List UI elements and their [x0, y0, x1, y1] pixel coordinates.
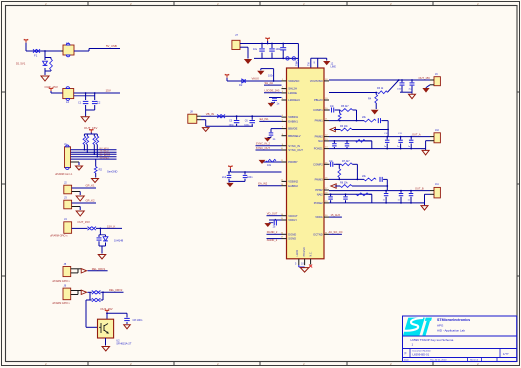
svg-text:R6 10k: R6 10k	[340, 125, 348, 128]
svg-text:PWM2: PWM2	[315, 135, 324, 139]
svg-text:SenGND: SenGND	[107, 169, 118, 173]
svg-text:DGND: DGND	[288, 232, 296, 236]
svg-text:uP/ARM GPIO x: uP/ARM GPIO x	[50, 235, 68, 238]
svg-text:PROBY: PROBY	[288, 160, 298, 164]
svg-text:PBL2O: PBL2O	[314, 98, 323, 102]
svg-text:R7 4k7: R7 4k7	[342, 160, 350, 163]
svg-text:SYNC_OUT: SYNC_OUT	[288, 148, 303, 152]
svg-text:SYNC_IN_2: SYNC_IN_2	[256, 142, 271, 146]
svg-text:NAI2: NAI2	[317, 192, 323, 196]
svg-text:1N4148: 1N4148	[114, 239, 124, 243]
svg-text:AID - Application Lab: AID - Application Lab	[437, 328, 465, 332]
svg-text:15_AUX: 15_AUX	[331, 213, 341, 217]
svg-text:N.C.: N.C.	[310, 251, 313, 256]
svg-text:OCTND: OCTND	[313, 232, 323, 236]
svg-text:uP/ARM Conn 1: uP/ARM Conn 1	[55, 173, 73, 176]
svg-text:DGND_2: DGND_2	[267, 230, 278, 234]
svg-text:100n: 100n	[247, 176, 253, 179]
svg-text:LINE: LINE	[331, 66, 337, 69]
svg-text:GP_K1: GP_K1	[86, 183, 95, 187]
svg-text:VDDLY: VDDLY	[288, 218, 297, 222]
svg-text:SHL2H: SHL2H	[288, 87, 297, 91]
svg-text:L2DDELV: L2DDELV	[288, 98, 300, 102]
svg-text:GP_K2: GP_K2	[86, 198, 95, 202]
svg-text:EABIN2: EABIN2	[288, 184, 298, 188]
svg-text:R2: R2	[99, 168, 103, 172]
svg-text:D1 5V1: D1 5V1	[16, 62, 26, 66]
svg-text:SH_2H: SH_2H	[265, 81, 273, 85]
svg-text:Sheet of: Sheet of	[470, 359, 479, 362]
svg-text:SYNC_IN: SYNC_IN	[288, 144, 300, 148]
svg-text:15V: 15V	[106, 88, 111, 92]
svg-text:BBVDELV: BBVDELV	[288, 134, 300, 138]
svg-text:R8 10k: R8 10k	[340, 182, 348, 185]
svg-text:SFH615A-2T: SFH615A-2T	[116, 342, 132, 346]
svg-text:AC_SO_OC: AC_SO_OC	[329, 230, 343, 234]
svg-text:EA_IN1: EA_IN1	[260, 117, 269, 121]
svg-text:L6599 TSSOP Key tool Schema: L6599 TSSOP Key tool Schema	[411, 338, 454, 342]
svg-text:1/??: 1/??	[503, 352, 509, 356]
svg-text:L2DDE: L2DDE	[288, 91, 297, 95]
svg-text:100n: 100n	[397, 88, 403, 90]
svg-text:VB_IN: VB_IN	[206, 112, 214, 116]
svg-text:OUT_15V: OUT_15V	[419, 76, 431, 80]
svg-text:BBVDE: BBVDE	[288, 127, 297, 131]
svg-text:APG: APG	[437, 323, 444, 327]
svg-text:2u2: 2u2	[222, 176, 227, 179]
svg-text:R5 4k7: R5 4k7	[341, 105, 349, 108]
svg-text:SGND: SGND	[288, 237, 296, 241]
svg-text:VDD2SO: VDD2SO	[288, 79, 299, 83]
svg-text:L6599-BD-01: L6599-BD-01	[413, 352, 430, 356]
svg-text:COMP2: COMP2	[313, 162, 323, 166]
svg-text:15V_K: 15V_K	[107, 224, 116, 228]
svg-text:COMP1: COMP1	[313, 108, 323, 112]
svg-text:PB GND: PB GND	[303, 247, 306, 256]
svg-text:J10: J10	[435, 129, 440, 132]
svg-text:REL_DRV2: REL_DRV2	[109, 288, 123, 292]
svg-text:F: F	[405, 352, 407, 356]
svg-text:OUT_A: OUT_A	[412, 132, 421, 136]
svg-text:C2: C2	[97, 101, 101, 105]
svg-text:Date:: Date:	[404, 359, 410, 362]
svg-text:PWM1: PWM1	[315, 119, 324, 123]
svg-text:OUT_B: OUT_B	[415, 187, 424, 191]
svg-text:VDDA: VDDA	[315, 215, 323, 219]
svg-text:EABIN1: EABIN1	[288, 120, 298, 124]
svg-text:VDBIN1: VDBIN1	[288, 115, 298, 119]
svg-text:SYNC_OUT: SYNC_OUT	[256, 146, 271, 150]
svg-text:LGND: LGND	[296, 250, 299, 257]
svg-text:100n: 100n	[268, 75, 274, 78]
svg-text:J7: J7	[235, 33, 238, 37]
svg-text:VD_OUT: VD_OUT	[267, 212, 278, 216]
svg-text:POKE1: POKE1	[314, 147, 323, 151]
svg-text:VDBIN2: VDBIN2	[288, 180, 298, 184]
svg-text:NAI: NAI	[318, 139, 323, 143]
svg-text:PWM3: PWM3	[315, 178, 324, 182]
svg-text:5V_USB: 5V_USB	[106, 44, 117, 48]
svg-text:10n: 10n	[329, 160, 334, 163]
svg-text:VAUX: VAUX	[252, 77, 260, 81]
svg-text:F1: F1	[34, 54, 38, 58]
svg-text:10n: 10n	[330, 105, 335, 108]
svg-text:AGND_2: AGND_2	[267, 238, 278, 242]
svg-text:VOUT2SO: VOUT2SO	[310, 79, 323, 83]
svg-text:POKE2: POKE2	[314, 201, 323, 205]
svg-text:EA_IN2: EA_IN2	[258, 182, 267, 186]
svg-text:TNI: TNI	[308, 62, 311, 66]
svg-text:LSODE_2H5: LSODE_2H5	[265, 88, 281, 92]
svg-text:C1: C1	[78, 101, 82, 105]
svg-text:OUT_15V: OUT_15V	[77, 220, 90, 224]
svg-text:D2: D2	[239, 83, 243, 87]
svg-text:10u: 10u	[253, 48, 258, 51]
svg-text:uP/ARM GPIO x: uP/ARM GPIO x	[52, 280, 70, 283]
svg-text:C8 100n: C8 100n	[133, 318, 143, 322]
svg-text:R3 1k: R3 1k	[377, 87, 384, 90]
svg-text:uP/ARM GPIO x: uP/ARM GPIO x	[52, 302, 70, 305]
svg-text:SenGND1: SenGND1	[100, 157, 111, 159]
svg-text:REL_DRV1: REL_DRV1	[92, 267, 106, 271]
svg-text:TSVCT: TSVCT	[295, 58, 298, 66]
svg-text:STMicroelectronics: STMicroelectronics	[437, 318, 470, 322]
svg-text:PPM2: PPM2	[315, 188, 323, 192]
svg-text:VDOUT: VDOUT	[288, 214, 298, 218]
svg-text:Thu Jul 01, 2010: Thu Jul 01, 2010	[430, 360, 447, 362]
